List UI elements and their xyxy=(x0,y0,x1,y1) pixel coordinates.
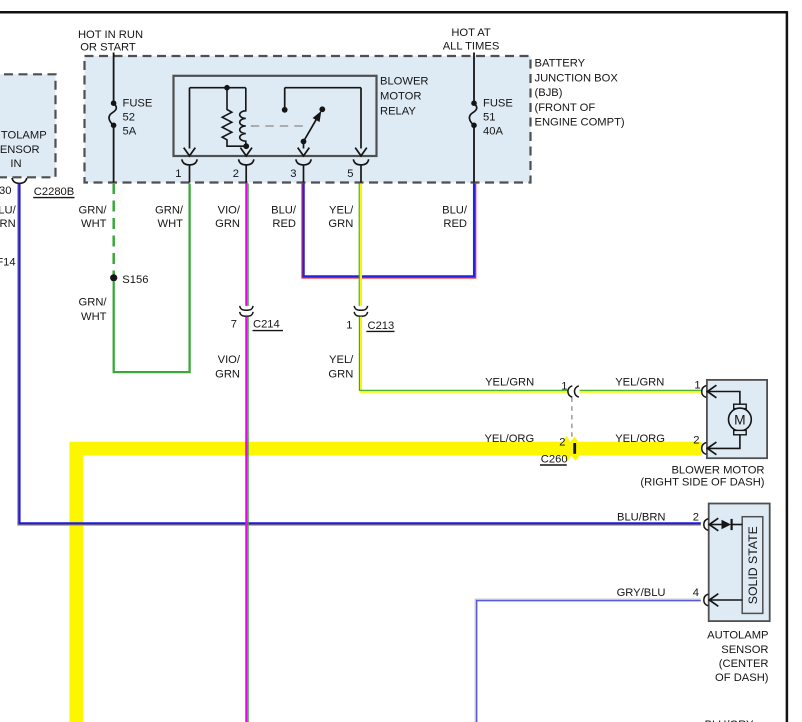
svg-text:52: 52 xyxy=(123,111,135,123)
sensor internal wire with diode xyxy=(709,524,721,526)
connector 30 arc under autolamp box xyxy=(12,178,27,184)
C260 harness dashed line xyxy=(571,398,573,438)
svg-text:YEL/GRN: YEL/GRN xyxy=(615,377,664,389)
svg-text:BATTERY: BATTERY xyxy=(535,58,586,70)
motor internal wire pin1 to brush xyxy=(707,392,740,405)
GRY/BLU wire gray stripe xyxy=(475,599,701,722)
BLU/RED wire blue xyxy=(304,184,475,277)
relay switch pivot node xyxy=(301,139,307,145)
YEL/GRN wire C260 to motor xyxy=(580,390,702,392)
sensor internal wire pin4 xyxy=(709,599,742,601)
fuse F51 symbol xyxy=(469,103,476,125)
pin 5 stub to box edge xyxy=(360,165,362,182)
highlight starburst below C260 xyxy=(564,456,580,462)
svg-text:HOT AT: HOT AT xyxy=(451,27,491,39)
highlight starburst above C260 xyxy=(563,436,579,442)
relay coil top wire xyxy=(190,87,246,89)
svg-text:4: 4 xyxy=(693,587,699,599)
sensor pin2 connector arc xyxy=(704,519,709,531)
svg-text:BLU/: BLU/ xyxy=(271,204,297,216)
wire from fuse 52 to BJB bottom xyxy=(113,127,115,183)
svg-text:5A: 5A xyxy=(123,125,137,137)
svg-text:1: 1 xyxy=(346,320,352,332)
page top border xyxy=(0,11,787,14)
motor internal wire brush to pin2 xyxy=(707,435,740,449)
svg-text:FUSE: FUSE xyxy=(483,97,513,109)
svg-text:BLU/: BLU/ xyxy=(442,204,468,216)
autolamp sensor box xyxy=(709,504,770,622)
svg-text:VIO/: VIO/ xyxy=(218,204,241,216)
svg-text:WHT: WHT xyxy=(81,311,107,323)
relay pin 5 leg xyxy=(360,88,362,149)
svg-text:YEL/ORG: YEL/ORG xyxy=(615,433,665,445)
svg-text:M: M xyxy=(734,412,746,427)
VIO/GRN wire lower segment xyxy=(245,317,247,722)
wire from HOT IN RUN to fuse 52 xyxy=(113,53,115,102)
splice S156 xyxy=(110,274,117,281)
GRN/WHT dashed wire from fuse 52 xyxy=(112,183,115,277)
svg-text:YEL/: YEL/ xyxy=(329,204,354,216)
C260 pin1 connector arcs xyxy=(568,386,572,397)
svg-text:S156: S156 xyxy=(122,274,148,286)
svg-text:GRN/: GRN/ xyxy=(79,204,108,216)
pin 5 connector arc xyxy=(353,159,368,165)
connector C214 arcs xyxy=(240,306,253,310)
svg-text:YEL/GRN: YEL/GRN xyxy=(485,377,534,389)
motor pin2 connector arc xyxy=(702,443,707,455)
BLU/RED wire red stripe pin3 to fuse 51 xyxy=(302,184,476,279)
svg-text:AUTOLAMP: AUTOLAMP xyxy=(707,630,768,642)
sensor pin4 connector arc xyxy=(704,594,709,606)
relay NC contact drop xyxy=(284,88,286,108)
svg-text:7: 7 xyxy=(231,319,237,331)
motor top brush xyxy=(734,404,747,408)
relay pin 2 leg xyxy=(245,146,247,148)
svg-text:FUSE: FUSE xyxy=(123,97,153,109)
resistor (relay coil suppression) xyxy=(222,88,246,147)
connector C213 arcs xyxy=(354,306,367,310)
svg-text:CF14: CF14 xyxy=(0,257,16,269)
svg-text:1: 1 xyxy=(175,168,181,180)
svg-text:SOLID STATE: SOLID STATE xyxy=(746,526,760,604)
svg-text:IN: IN xyxy=(10,158,21,170)
svg-text:OR START: OR START xyxy=(80,42,136,54)
pin 3 connector arc xyxy=(296,159,311,165)
pin 2 stub to box edge xyxy=(245,165,247,182)
diode xyxy=(722,520,732,530)
blower motor relay box xyxy=(174,76,377,156)
svg-text:YEL/: YEL/ xyxy=(329,354,354,366)
svg-text:OF DASH): OF DASH) xyxy=(715,672,769,684)
svg-text:GRN: GRN xyxy=(328,218,353,230)
svg-text:2: 2 xyxy=(693,435,699,447)
svg-text:GRN: GRN xyxy=(215,368,240,380)
solid state inner box xyxy=(742,517,763,614)
svg-text:(CENTER: (CENTER xyxy=(719,658,769,670)
motor bottom brush xyxy=(734,430,747,434)
relay switch top wire xyxy=(285,87,361,89)
svg-text:C260: C260 xyxy=(541,453,568,465)
svg-text:MOTOR: MOTOR xyxy=(380,91,421,103)
svg-text:C214: C214 xyxy=(253,319,280,331)
svg-text:5: 5 xyxy=(347,168,353,180)
battery junction box (BJB) dashed box xyxy=(85,56,531,183)
svg-text:WHT: WHT xyxy=(81,218,107,230)
pin 1 stub to box edge xyxy=(189,165,191,182)
svg-text:2: 2 xyxy=(233,168,239,180)
pin 5 arrow xyxy=(355,148,367,156)
motor pin1 connector arc xyxy=(702,386,707,398)
svg-text:WHT: WHT xyxy=(158,218,184,230)
pin 3 arrow xyxy=(298,148,310,156)
svg-text:RED: RED xyxy=(272,218,296,230)
svg-text:3: 3 xyxy=(290,168,296,180)
svg-text:GRN: GRN xyxy=(328,368,353,380)
relay coil winding xyxy=(240,88,246,147)
BLU/BRN wire brown stripe (left sensor feed) xyxy=(18,184,701,526)
svg-text:ENGINE COMPT): ENGINE COMPT) xyxy=(535,117,625,129)
svg-text:RELAY: RELAY xyxy=(380,106,416,118)
svg-text:(BJB): (BJB) xyxy=(535,87,563,99)
wire from HOT AT ALL TIMES to fuse 51 xyxy=(473,53,475,102)
thick yellow highlighted YEL/ORG wire xyxy=(76,449,701,722)
YEL/GRN wire pin 5 upper segment xyxy=(360,184,362,306)
relay NO contact node xyxy=(319,106,325,112)
relay mechanical linkage dashed xyxy=(251,125,304,127)
svg-text:1: 1 xyxy=(561,380,567,392)
svg-text:C213: C213 xyxy=(368,320,395,332)
svg-text:(RIGHT SIDE OF DASH): (RIGHT SIDE OF DASH) xyxy=(640,476,764,488)
svg-text:(FRONT OF: (FRONT OF xyxy=(535,102,596,114)
svg-text:HOT IN RUN: HOT IN RUN xyxy=(78,29,143,41)
pin 3 stub to box edge xyxy=(303,165,305,182)
svg-text:BLOWER: BLOWER xyxy=(380,76,429,88)
pin 2 arrow xyxy=(240,148,252,156)
autolamp sensor in box (cut at left edge) xyxy=(0,74,56,177)
motor M circle xyxy=(729,408,752,431)
svg-text:JUNCTION BOX: JUNCTION BOX xyxy=(535,72,619,84)
svg-text:GRN/: GRN/ xyxy=(79,297,108,309)
svg-text:BLU/: BLU/ xyxy=(0,204,17,216)
svg-text:C2280B: C2280B xyxy=(34,186,74,198)
GRN/WHT solid wire splice to relay pin 1 xyxy=(114,184,190,373)
C260 pin2 connector bar xyxy=(573,443,576,454)
motor pin2 arrow xyxy=(707,442,716,455)
svg-text:YEL/ORG: YEL/ORG xyxy=(484,433,534,445)
svg-text:VIO/: VIO/ xyxy=(218,354,241,366)
relay pin 3 leg xyxy=(303,142,305,149)
svg-text:ALL TIMES: ALL TIMES xyxy=(443,41,500,53)
pin 2 connector arc xyxy=(239,159,254,165)
blower motor box xyxy=(707,380,767,458)
BLU/BRN wire blue xyxy=(19,184,700,524)
relay pin 1 leg xyxy=(189,88,191,149)
svg-text:51: 51 xyxy=(483,111,495,123)
page right border xyxy=(786,11,789,722)
sensor pin4 arrow xyxy=(709,594,718,607)
svg-text:GRN/: GRN/ xyxy=(155,204,184,216)
svg-text:BLU/BRN: BLU/BRN xyxy=(617,512,666,524)
svg-text:SENSOR: SENSOR xyxy=(0,144,40,156)
svg-text:AUTOLAMP: AUTOLAMP xyxy=(0,130,47,142)
svg-text:1: 1 xyxy=(694,380,700,392)
YEL/GRN wire down and right to C260 xyxy=(361,317,568,392)
VIO/GRN wire upper segment xyxy=(245,184,247,306)
fuse F52 symbol xyxy=(109,103,116,125)
svg-text:2: 2 xyxy=(693,512,699,524)
GRY/BLU wire blue xyxy=(477,601,701,722)
svg-text:30: 30 xyxy=(0,185,12,197)
svg-text:RED: RED xyxy=(443,218,467,230)
svg-text:2: 2 xyxy=(559,436,565,448)
svg-text:SENSOR: SENSOR xyxy=(721,644,768,656)
svg-text:BLOWER MOTOR: BLOWER MOTOR xyxy=(671,464,764,476)
relay switch arm with arrowhead xyxy=(304,120,317,142)
svg-text:GRY/BLU: GRY/BLU xyxy=(617,587,666,599)
pin 1 connector arc xyxy=(182,159,197,165)
svg-text:GRN: GRN xyxy=(215,218,240,230)
wire from fuse 51 to BJB bottom xyxy=(473,127,475,183)
junction node at coil bottom xyxy=(243,143,249,149)
junction node above resistor xyxy=(224,85,230,91)
svg-text:BRN: BRN xyxy=(0,218,16,230)
pin 1 arrow xyxy=(184,148,196,156)
sensor pin2 arrow xyxy=(709,518,718,531)
svg-text:40A: 40A xyxy=(483,125,503,137)
motor pin1 arrow xyxy=(707,385,716,398)
